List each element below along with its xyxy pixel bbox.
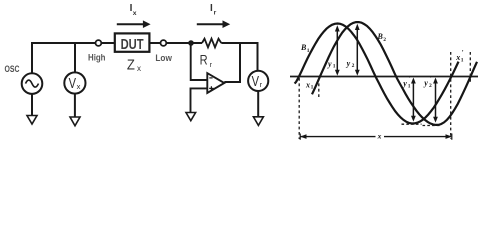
- wire: non-inverting input to ground: [191, 88, 208, 113]
- svg-text:1: 1: [311, 85, 314, 91]
- svg-text:1: 1: [307, 48, 310, 54]
- voltmeter Vr: [248, 71, 268, 91]
- svg-text:R: R: [200, 52, 208, 67]
- wire: Vx branch vertical: [74, 42, 76, 72]
- svg-text:r: r: [214, 10, 217, 17]
- period arrow x (bottom): [300, 134, 452, 140]
- svg-text:Low: Low: [155, 53, 172, 63]
- dashed trough level under B2: [423, 125, 441, 127]
- junction node (dot): [188, 40, 194, 46]
- svg-text:x: x: [137, 64, 141, 73]
- dashed vertical at B2 first crossing: [318, 78, 320, 99]
- resistor Rr (zigzag): [202, 39, 221, 48]
- wire: resistor to Vr corner: [221, 42, 257, 44]
- svg-text:x: x: [305, 80, 310, 89]
- svg-text:OSC: OSC: [5, 64, 20, 75]
- dashed vertical at B1 last crossing: [450, 52, 452, 139]
- wire: OSC vertical up to top wire: [31, 42, 33, 73]
- svg-text:2: 2: [429, 83, 432, 89]
- svg-text:x: x: [455, 53, 460, 62]
- wire: OSC to ground: [31, 94, 33, 116]
- wire: Vx to ground: [74, 94, 76, 117]
- terminal Low (open circle): [161, 40, 167, 46]
- svg-text:2: 2: [383, 37, 386, 43]
- svg-text:x: x: [133, 10, 137, 17]
- svg-text:V: V: [69, 76, 77, 92]
- ground (below OSC): [27, 116, 37, 125]
- wire: feedback vertical leg: [239, 43, 241, 82]
- svg-text:I: I: [210, 3, 213, 14]
- op-amp minus sign: [209, 77, 212, 79]
- wire: corner down to Vr: [257, 42, 259, 71]
- DUT box: [115, 33, 150, 51]
- svg-text:y: y: [423, 79, 428, 88]
- current arrow Ix: [117, 23, 144, 25]
- wire: top main wire from OSC to High terminal: [31, 42, 96, 44]
- dashed trough level under B1: [402, 123, 422, 125]
- svg-text:y: y: [327, 59, 332, 68]
- measure arrow y2' (axis to B2 trough): [433, 78, 438, 123]
- curve B1: [295, 24, 459, 124]
- measure arrow y1 (peak B1 to axis): [335, 25, 340, 75]
- op-amp plus sign: [209, 86, 213, 90]
- measure arrow y2 (peak B2 to axis): [355, 24, 360, 76]
- svg-text:V: V: [252, 74, 260, 90]
- ground (op-amp + input): [186, 113, 196, 121]
- current arrow Ir: [197, 23, 224, 25]
- oscillator source OSC (circle with sine): [22, 73, 43, 94]
- op-amp U1 (triangle): [207, 73, 224, 93]
- ground (below Vr): [253, 117, 263, 126]
- svg-text:′: ′: [430, 75, 432, 83]
- wire: Low terminal to junction: [166, 42, 202, 44]
- svg-text:Z: Z: [127, 56, 135, 73]
- curve B2: [312, 22, 477, 125]
- svg-text:y: y: [402, 79, 407, 88]
- ground (below Vx): [70, 117, 80, 126]
- svg-text:′: ′: [462, 49, 464, 57]
- wire: High terminal to DUT: [101, 42, 114, 44]
- measure arrow y1' (axis to B1 trough): [411, 78, 416, 122]
- dashed vertical at B2 last crossing: [469, 52, 471, 84]
- svg-text:2: 2: [352, 63, 355, 69]
- wire: DUT to Low terminal: [149, 42, 160, 44]
- wire: op-amp output: [224, 81, 241, 83]
- svg-text:1: 1: [333, 64, 336, 70]
- svg-text:′: ′: [409, 75, 411, 83]
- voltmeter Vx: [64, 72, 85, 93]
- wire: inverting input drop from junction: [191, 43, 208, 80]
- svg-text:1: 1: [408, 83, 411, 89]
- axis (x axis of waveform plot): [290, 76, 478, 78]
- dashed vertical at B1 first crossing: [298, 78, 300, 139]
- svg-text:DUT: DUT: [121, 37, 144, 53]
- wire: Vr to ground: [257, 91, 259, 117]
- svg-text:x: x: [77, 82, 81, 91]
- svg-text:1: 1: [461, 58, 464, 64]
- svg-text:y: y: [346, 59, 351, 68]
- svg-text:x: x: [377, 132, 382, 141]
- terminal High (open circle): [96, 40, 102, 46]
- svg-text:High: High: [88, 53, 106, 63]
